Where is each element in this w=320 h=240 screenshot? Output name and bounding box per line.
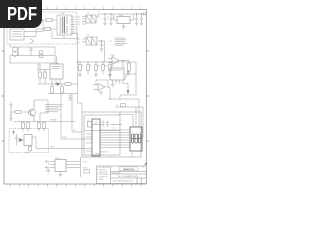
wire U4 inputs (93, 85, 98, 89)
vertical connector rail (80, 157, 82, 177)
svg-text:Size Number: Size Number (112, 172, 122, 174)
component box on wire (121, 104, 126, 107)
svg-text:VSENSE: VSENSE (50, 119, 58, 121)
ground bus under U2 (38, 79, 65, 84)
optocoupler U7 (24, 135, 32, 146)
IC U3 (110, 68, 124, 80)
wire U2 supply (56, 56, 58, 65)
PWM controller U2 (50, 64, 63, 79)
capacitor CX1 (29, 47, 32, 56)
display DS1 seven segment (130, 127, 142, 151)
resistor R7 (102, 61, 104, 74)
ground U6 bottom (60, 172, 62, 175)
capacitor C2 with ground (109, 13, 112, 25)
capacitor C8 (10, 102, 13, 106)
emitter bus (14, 121, 75, 123)
capacitor C1 with ground (103, 13, 106, 25)
wire U4 feedback (96, 80, 108, 87)
svg-text:S2: S2 (78, 19, 80, 21)
resistor R14 (29, 146, 32, 152)
sheet border frame (4, 10, 146, 185)
svg-text:MCU 1: MCU 1 (95, 153, 100, 155)
transistor Q1 (28, 100, 35, 122)
wire R1 R2 tops (38, 64, 50, 70)
svg-text:C1: C1 (107, 17, 109, 19)
digit 3 (138, 134, 140, 143)
svg-text:2: 2 (117, 82, 118, 84)
capacitor C11 (45, 166, 51, 170)
title text (119, 167, 138, 171)
svg-text:R1: R1 (37, 70, 39, 72)
power rail VCC (99, 13, 144, 15)
comparator U3A triangle (112, 57, 119, 65)
inductor L2 (39, 50, 43, 58)
svg-text:3: 3 (121, 82, 122, 84)
svg-text:TL431: TL431 (55, 158, 60, 160)
capacitor C7 (106, 121, 109, 128)
resistor R3 horizontal (65, 83, 71, 86)
wire right of display (131, 152, 133, 157)
svg-text:Date: 2002.10 Sheet 1/1: Date: 2002.10 Sheet 1/1 (113, 180, 134, 183)
ground U3 (111, 84, 115, 87)
svg-text:N1: N1 (110, 41, 112, 43)
notes text block center (45, 105, 61, 112)
sense bus rail (78, 61, 137, 63)
wire U3A inputs (108, 59, 112, 63)
crystal Y1 (88, 122, 93, 128)
svg-text:D1: D1 (119, 113, 121, 115)
svg-text:S6: S6 (76, 29, 78, 31)
svg-text:CON1: CON1 (83, 162, 88, 164)
title block revision text column (97, 166, 110, 181)
net arrow VCC (144, 13, 147, 16)
resistor R8 (108, 61, 112, 77)
resistor R6 (94, 61, 98, 77)
wire collector network left (34, 100, 48, 122)
svg-text:T1: T1 (61, 12, 64, 15)
wire U6 left pins (50, 162, 55, 168)
resistor R15 (43, 122, 46, 132)
svg-text:D2: D2 (116, 105, 118, 107)
wire U3 pin to rail (124, 73, 136, 75)
ruler tick marks bottom edge (10, 184, 141, 187)
svg-text:Y1: Y1 (88, 120, 90, 122)
svg-text:File: C:\SCH\MAINPCB.SCH: File: C:\SCH\MAINPCB.SCH (118, 175, 139, 178)
microcontroller U1 (92, 119, 100, 156)
svg-text:D1: D1 (87, 13, 89, 15)
common mode choke L1 (13, 47, 19, 57)
capacitor C5 with ground (100, 41, 104, 49)
svg-text:a: a (144, 122, 145, 124)
svg-text:3. SEE NOTE 2: 3. SEE NOTE 2 (97, 172, 108, 174)
svg-text:CON2: CON2 (83, 168, 88, 170)
step wire to display digit 2 (115, 107, 143, 138)
svg-text:S3: S3 (78, 21, 80, 23)
diode D3 (57, 83, 60, 86)
svg-text:1. ALL RES 1/4W: 1. ALL RES 1/4W (97, 166, 110, 169)
svg-text:D2: D2 (87, 35, 89, 37)
digit 1 (131, 134, 133, 143)
svg-text:S5: S5 (76, 27, 78, 29)
svg-text:S4: S4 (78, 24, 80, 26)
ground op-amp (100, 91, 102, 93)
svg-text:U3A: U3A (111, 54, 115, 57)
digit 2 (135, 134, 137, 143)
wire opto output (32, 137, 82, 149)
svg-text:S6: S6 (78, 39, 80, 41)
dashed enclosure feedback section (9, 129, 49, 153)
svg-text:MAIN PCB: MAIN PCB (123, 168, 134, 171)
svg-text:PWM: PWM (63, 137, 68, 139)
bridge D1 input stubs (82, 17, 86, 25)
svg-text:5. TESTED OK: 5. TESTED OK (97, 177, 109, 179)
net arrow +V in dashed box (13, 132, 15, 136)
voltage regulator U5 (117, 17, 130, 24)
svg-text:R2: R2 (44, 70, 46, 72)
zone tick marks left border (2, 51, 4, 141)
svg-text:4k7: 4k7 (113, 124, 116, 126)
resistor R12 (27, 122, 30, 132)
bridge rectifier D1 (86, 15, 96, 23)
capacitor C9 (15, 134, 18, 146)
wire U6 right pins (66, 162, 81, 168)
svg-text:R24: R24 (105, 66, 108, 68)
wire net to MCU port B (59, 94, 82, 140)
arrow marker near title block (142, 163, 147, 168)
notes text block upper right (115, 38, 127, 45)
svg-text:1: 1 (114, 82, 115, 84)
wire transformer secondary pin stubs (71, 17, 76, 32)
op-amp U4 (98, 83, 105, 90)
wire transformer bottom tap (52, 31, 78, 39)
step wire to display digit 3 (110, 99, 139, 127)
resistor row labels (82, 66, 115, 68)
resistor R10 base (15, 111, 21, 114)
terminal block TB1 under badge (9, 15, 43, 26)
ground U5 (123, 24, 125, 27)
bridge D2 input stubs (82, 39, 86, 42)
svg-text:R25: R25 (112, 66, 115, 68)
connector pin box (84, 170, 90, 174)
dashed enclosure box AC input section (7, 12, 77, 44)
resistor R11 (22, 122, 25, 132)
input filter rail upper (10, 44, 55, 56)
PDF badge overlay (0, 0, 42, 28)
svg-text:ISO: ISO (26, 152, 30, 154)
ground U6 left (46, 171, 50, 173)
fuse F1 (46, 18, 52, 21)
resistor R9 with trimmer arrow (125, 61, 131, 80)
wire U3A output (119, 61, 129, 69)
resistor R13 (38, 122, 41, 132)
connector J1 AC inlet (10, 29, 28, 40)
resistor R1 (39, 64, 42, 84)
title block outline (97, 166, 147, 184)
wire U3 bottom pins (113, 80, 129, 84)
wire filter output down (10, 47, 58, 64)
wire net to MCU port A (72, 94, 82, 133)
wire U1 left pins (82, 134, 92, 151)
main vertical bus wire left of MCU box (71, 34, 83, 113)
capacitor C6 (102, 121, 105, 128)
resistor R2 (44, 70, 47, 85)
wire AC live to fuse (28, 20, 43, 32)
wire U1 right pin bus to display (100, 130, 130, 148)
svg-text:V+: V+ (98, 12, 100, 14)
wire U4 output (106, 87, 110, 99)
MCU module outer box (82, 112, 141, 157)
wire U5 output pin (130, 14, 134, 20)
wire AC neutral (28, 29, 43, 37)
zone tick marks right border (146, 51, 149, 141)
voltage reference U6 (55, 160, 66, 172)
svg-text:10n: 10n (113, 127, 116, 129)
capacitor C4 with ground (140, 13, 143, 25)
resistor divider pair mid (48, 84, 78, 101)
resistor R5 (87, 61, 89, 74)
transformer pin net labels (76, 17, 78, 34)
diode D5 (20, 138, 23, 142)
wire U5 input pin (114, 14, 118, 20)
svg-text:R23: R23 (98, 66, 101, 68)
net arrow AC out (30, 39, 34, 44)
ground emitter bus (9, 112, 13, 121)
bridge rectifier D2 (86, 37, 97, 45)
step wire to display digit 1 (118, 115, 133, 128)
svg-text:R22: R22 (90, 66, 93, 68)
ruler tick marks top edge (10, 7, 141, 9)
diode D4 vertical (127, 84, 129, 91)
svg-text:S1: S1 (78, 16, 80, 18)
MCU support components inner box (84, 115, 120, 155)
svg-text:S7: S7 (78, 42, 80, 44)
wire D1 output to VCC rail (96, 14, 99, 17)
svg-text:R21: R21 (82, 66, 85, 68)
wire sense rail to feedback node (120, 62, 136, 99)
capacitor C10 (45, 160, 51, 164)
wire inner box components (92, 121, 122, 125)
wire D2 output (98, 41, 105, 62)
resistor R4 (78, 61, 82, 77)
svg-text:AT89C2051: AT89C2051 (101, 151, 110, 154)
transformer T1 (57, 15, 72, 35)
capacitor C3 with ground (135, 13, 138, 25)
